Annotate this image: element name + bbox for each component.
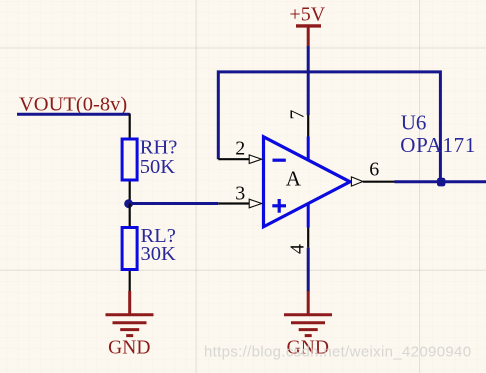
junction output node: [437, 178, 445, 187]
wire node to pin3: [130, 202, 219, 205]
resistor RL1 30K: [122, 204, 176, 293]
junction node A: [124, 199, 133, 208]
svg-text:+5V: +5V: [289, 4, 325, 26]
wire VOUT to RH top: [17, 113, 130, 116]
svg-text:7: 7: [287, 110, 309, 120]
svg-text:A: A: [286, 167, 302, 191]
watermark: [204, 343, 471, 360]
pin 6 output: [351, 177, 363, 186]
pin 2: [218, 158, 249, 160]
svg-text:50K: 50K: [140, 156, 176, 178]
svg-text:U6: U6: [401, 111, 427, 135]
resistor RH1 50K: [122, 114, 177, 204]
op-amp body stub to pin7: [307, 137, 310, 161]
power port +5V: [289, 4, 325, 47]
op-amp body stub to pin4: [307, 204, 310, 228]
power port GND left: [106, 291, 154, 359]
svg-text:OPA171: OPA171: [400, 133, 476, 157]
svg-text:VOUT(0-8v): VOUT(0-8v): [19, 93, 127, 115]
wire feedback pin2 to output node: [218, 72, 440, 182]
svg-text:3: 3: [235, 183, 245, 205]
pin 4: [307, 228, 309, 248]
svg-text:https://blog.csdn.net/weixin_4: https://blog.csdn.net/weixin_42090940: [204, 343, 471, 360]
pin 7: [307, 115, 309, 137]
wire output to right edge: [395, 180, 486, 183]
svg-text:GND: GND: [108, 338, 150, 359]
svg-text:6: 6: [369, 159, 379, 181]
svg-text:2: 2: [235, 138, 245, 160]
net label VOUT(0-8v): [19, 93, 127, 115]
wire pin4 to GND: [307, 248, 310, 292]
wire +5V to pin7: [307, 46, 310, 115]
minus mark: [273, 159, 286, 162]
power port GND right: [284, 291, 332, 359]
plus mark: [272, 199, 286, 213]
svg-text:30K: 30K: [141, 243, 177, 265]
op-amp U6 OPA171: [218, 110, 476, 254]
pin 3: [218, 202, 249, 204]
op-amp triangle: [264, 137, 351, 227]
svg-text:4: 4: [287, 244, 309, 254]
